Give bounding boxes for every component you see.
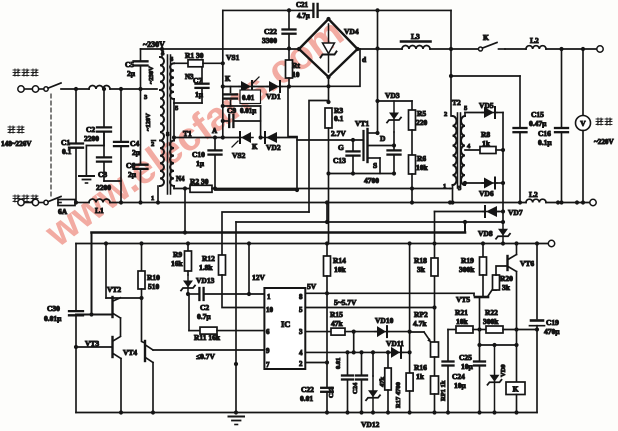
diode VD6 [479,178,497,199]
resistor R19 300k [459,241,487,295]
svg-text:1: 1 [267,293,271,301]
transistor VT6 [508,255,535,272]
wire mains rail [158,200,526,204]
MOSFET VT1 [355,119,394,174]
label 0.01 vertical [335,358,342,369]
svg-text:≤0.7V: ≤0.7V [196,352,215,361]
N3 bottom lead [172,99,202,140]
T1 secondary N3 [170,56,179,112]
svg-text:4.7k: 4.7k [413,319,427,328]
svg-text:1.8k: 1.8k [199,263,213,272]
svg-text:RP2: RP2 [414,310,428,319]
wire R10 to VT4 base [142,298,146,343]
svg-text:1: 1 [151,195,154,202]
node C1 top [74,87,78,91]
diode VD7 [483,206,523,217]
svg-text:R14: R14 [333,256,346,265]
label <=0.7V [196,352,215,361]
transistor VT3 [85,337,121,359]
wire T2 pin3 to VD6 [463,181,484,185]
diode VD10 [375,316,394,337]
svg-text:2: 2 [151,141,154,148]
svg-text:Rt: Rt [292,61,300,70]
wire rectifier column [501,113,505,225]
wire T1 row to VS2 [174,135,240,139]
wire column A [434,244,436,343]
label VD4 [344,27,359,36]
inductor L2 bottom [526,190,546,203]
switch S1b [39,197,61,205]
svg-text:10μ: 10μ [461,362,474,371]
wire R5 to R6 [411,130,413,155]
svg-text:T2: T2 [452,98,461,107]
label A node [212,127,217,135]
output terminal bottom [590,199,596,205]
resistor R8 1k [480,130,496,154]
C8 value box 0.01 [240,90,261,104]
wire R15 to VD10 [345,330,377,334]
label ground-line (Chinese) [13,195,38,202]
svg-text:S: S [373,161,377,170]
T1 primary winding upper [160,50,165,90]
svg-text:VD3: VD3 [385,91,400,100]
resistor R20 3k [493,274,514,292]
wire IC ground column [234,222,238,415]
svg-text:6A: 6A [58,207,68,216]
svg-text:9: 9 [266,347,270,355]
svg-text:8: 8 [299,293,303,301]
svg-text:R21: R21 [455,308,468,317]
wire R3 top tap to R12 riser [309,101,329,213]
wire top drop to T2 [449,10,453,116]
fuse 6A [58,200,75,217]
label 2.7V [331,129,346,138]
label T1 pin8 [166,129,192,138]
potentiometer RP2 4.7k [413,310,439,357]
node C4 top [119,87,123,91]
svg-text:L2: L2 [529,190,538,199]
capacitor C4 [114,89,141,205]
svg-text:10k: 10k [416,163,429,172]
svg-text:47k: 47k [331,319,344,328]
wire L2 to output terminal [546,47,596,51]
thyristor VS2 [232,132,253,160]
svg-text:C21: C21 [296,1,309,9]
input terminal circles top [18,86,39,92]
transistor VT5 [456,290,496,304]
transistor VT4 [123,341,153,363]
ground branch from C2/C3 [86,132,104,175]
node C9 top [221,104,225,108]
resistor 47k vertical [379,350,391,414]
T1 tap3 [144,94,148,101]
wire R14 column down [326,293,328,387]
svg-text:VS2: VS2 [232,151,246,160]
inductor L3 [401,32,431,49]
svg-text:C2: C2 [200,303,209,312]
output terminal top [597,46,603,52]
svg-text:VT6: VT6 [520,259,534,268]
zener VD3 [387,101,401,148]
node VS1 anode [221,84,225,88]
svg-text:IC: IC [281,319,290,329]
switch K [479,33,506,51]
transistor VT2 [107,285,121,318]
svg-text:10: 10 [292,70,300,79]
thyristor VS1 [223,77,259,92]
capacitor C24a [352,350,367,414]
wire C15 column [518,76,522,205]
capacitor C19 470u [530,241,561,412]
label VD3 [385,91,400,100]
relay K coil [506,345,525,415]
svg-text:5: 5 [299,306,303,314]
svg-text:C16: C16 [538,129,551,138]
svg-text:L3: L3 [411,32,420,41]
svg-text:VD8: VD8 [478,229,493,238]
svg-text:R9: R9 [173,250,182,259]
svg-text:VT2: VT2 [107,285,121,294]
resistor R14 10k [324,241,347,293]
svg-text:R1 30: R1 30 [185,51,204,60]
T1 primary winding middle [160,90,164,141]
input terminal circles bottom [18,199,39,205]
resistor R11 16k [189,327,264,342]
svg-text:R2 30: R2 30 [190,177,209,186]
wire VD7 column drop [432,212,436,246]
svg-text:4.7μ: 4.7μ [297,12,310,20]
wire Rt bus to bridge bottom [289,85,329,87]
wire VT2 base drop [89,233,93,317]
svg-text:10μ: 10μ [454,381,467,390]
resistor R15 47k [305,310,345,335]
svg-text:VD11: VD11 [386,339,404,348]
T2 secondary winding [458,105,468,192]
wire VT4 collector to IC pin9 [153,349,264,351]
ground symbol (IC) [229,417,245,425]
wire VD10 to col A [387,330,412,334]
svg-text:2μ: 2μ [128,170,137,179]
zener VD12 [361,350,380,429]
wire top bus horizontal [223,9,313,11]
wire VT6 emitter drop [514,272,518,348]
svg-text:R10: R10 [147,273,160,282]
svg-text:R19: R19 [461,256,474,265]
wire sense rail [76,243,548,245]
capacitor C24b [452,362,485,415]
wire VD7 row [435,211,486,213]
svg-text:L1: L1 [95,206,104,215]
svg-text:7: 7 [266,361,270,369]
wire 230V line to bridge [141,48,300,50]
svg-text:R12: R12 [202,254,215,263]
svg-text:K: K [483,33,489,42]
svg-text:0.1: 0.1 [62,147,72,156]
capacitor C1 [61,89,83,205]
svg-text:1μ: 1μ [196,159,205,168]
svg-text:R18: R18 [414,256,427,265]
inductor L2 top [526,36,546,49]
T1 secondary N4 [170,138,174,189]
wire C3 bottom to C4 column [104,180,121,182]
svg-text:0.01: 0.01 [242,94,255,102]
diode VD1 [266,81,282,101]
label VS1 [226,53,240,62]
label N4 [176,175,185,183]
svg-text:C3: C3 [98,170,107,179]
svg-text:3k: 3k [502,283,511,292]
wire R12 to IC pin10 [222,275,264,308]
label 5V [307,282,317,291]
svg-text:VD2: VD2 [266,143,281,152]
svg-text:2: 2 [444,111,447,118]
svg-text:C10: C10 [192,150,205,159]
svg-text:C4: C4 [130,139,139,148]
wire R2 to T2 pin1 [212,186,450,192]
svg-text:VT5: VT5 [456,295,470,304]
label R17 4700 [395,382,402,408]
svg-text:~230V: ~230V [148,66,155,84]
wire IC pin2 stub [305,360,329,364]
wire 12V drop [247,241,266,294]
capacitor C5 [125,49,148,89]
capacitor C9 [221,106,261,127]
wire R3 col to rail [328,174,330,244]
svg-text:1k: 1k [416,372,425,381]
label K (VS2) [252,143,258,151]
IC box [264,288,305,369]
T1 pin1 lead [151,186,160,205]
svg-text:C1: C1 [61,138,70,147]
wire K to L2 [505,48,526,50]
ground symbol (input filter) [79,176,94,183]
wire L3 to switch K [430,47,479,51]
svg-text:V: V [580,119,586,128]
svg-text:10: 10 [266,306,274,314]
svg-text:L2: L2 [530,36,539,45]
wire relay feed row [480,344,517,346]
wire VT3 emitter drop [119,359,123,415]
gate wire to VT1 [297,139,364,141]
resistor R18 3k [414,256,438,276]
diode VD2 [263,132,281,152]
svg-text:300k: 300k [483,317,499,326]
svg-text:0.1μ: 0.1μ [538,138,552,147]
capacitor C13 [333,138,360,176]
wire N4 riser [183,189,187,235]
svg-text:VD12: VD12 [361,420,380,429]
wire RP2 to RP1 [434,357,436,376]
wire VT1 drain column [375,10,379,135]
svg-text:C5: C5 [125,60,134,69]
svg-text:K: K [252,143,258,151]
svg-text:47k: 47k [379,377,386,388]
resistor R22 300k [483,308,503,333]
svg-text:C24: C24 [352,382,359,394]
label ~230V vertical [148,66,155,84]
svg-text:R16: R16 [414,363,427,372]
capacitor C25 [443,353,474,415]
switch S1a [39,83,61,91]
wire thick control bus [92,222,466,233]
resistor R16 1k [406,332,427,415]
capacitor C22 [262,10,296,50]
wire T2 pin4 to R8 [465,149,480,151]
svg-text:VD9: VD9 [500,364,507,377]
wire T2 pin5 to VD5 [465,113,484,117]
wire top bus from VS1 column [222,10,224,137]
wire wiper column [408,241,412,332]
svg-text:16k: 16k [171,259,184,268]
svg-text:1μ: 1μ [195,90,204,99]
wire VD1 to Rt column [280,84,291,88]
label K (VS1 cathode) [225,75,231,83]
wire source bus [326,171,394,175]
svg-text:0.01: 0.01 [300,394,313,403]
svg-text:VD6: VD6 [479,189,494,198]
svg-text:VS1: VS1 [226,53,240,62]
svg-text:1k: 1k [482,139,491,148]
svg-text:VT1: VT1 [355,119,369,128]
svg-text:3k: 3k [417,265,426,274]
svg-text:2μ: 2μ [127,69,136,78]
wire VD5 to column [495,112,503,114]
svg-text:C6: C6 [126,161,135,170]
potentiometer RP1 1k [431,376,448,415]
resistor R9 16k [171,241,192,275]
capacitor C16 [538,49,568,205]
wire R21 left drop [448,330,456,362]
svg-text:0.7μ: 0.7μ [197,312,211,321]
capacitor C30 [44,304,83,413]
svg-text:2.7V: 2.7V [331,129,346,138]
label N3 [185,73,194,81]
label G [338,143,344,152]
node C22 top [287,8,291,12]
svg-text:4: 4 [299,349,303,357]
svg-text:5V: 5V [307,282,317,291]
transformer T2 core [458,113,461,188]
wire R1 to VS1 column [203,61,225,65]
wire riser rail tap [325,200,329,224]
wire R8 to column [496,148,505,152]
wire VD2 output drop [215,138,297,191]
inductor L1a [89,86,157,90]
svg-text:VD10: VD10 [375,316,394,325]
svg-text:C22: C22 [301,385,314,394]
wire VT2 emitter to VT3 collector [120,318,122,336]
wire VD1 output drop [288,87,297,137]
wire N3 top to R1 [174,62,188,64]
node 12V line [247,292,251,296]
wire VT2 base [76,314,113,316]
svg-text:6: 6 [266,328,270,336]
wire C21 to right drop [318,8,451,12]
resistor R3 0.1 [325,106,344,174]
resistor R1 30 [185,51,204,67]
capacitor C2 [84,89,111,143]
svg-text:R17 4700: R17 4700 [395,382,402,408]
svg-text:12V: 12V [252,273,266,282]
label T2 [452,98,461,107]
svg-text:2μ: 2μ [132,148,141,157]
resistor R5 220 [409,101,428,130]
svg-text:RP1 1k: RP1 1k [440,380,447,401]
svg-text:R6: R6 [417,154,426,163]
wire IC pin8 5V bus [305,291,474,295]
label 输出 ~220V [594,118,615,146]
svg-text:C19: C19 [546,318,559,327]
svg-text:T1: T1 [183,129,192,138]
label d [362,55,367,64]
wire T2 node to C15 [451,75,520,77]
capacitor C8 [224,87,237,107]
svg-text:R11 16k: R11 16k [194,333,221,342]
wire VD6 to column [495,181,505,185]
wire R22 to C19 [503,327,539,331]
wire left rail upper [75,244,77,312]
svg-text:~120V: ~120V [145,113,152,131]
node C2 top [102,87,106,91]
wire C8 bottom row [223,105,261,107]
capacitor C23 [328,350,353,414]
svg-text:220: 220 [416,118,428,127]
T1 tap2 stub [151,141,156,149]
capacitor C22 [300,385,333,415]
capacitor C7 [193,63,209,103]
svg-text:C7: C7 [193,76,202,85]
diode VD5 [479,101,497,118]
svg-text:0.47μ: 0.47μ [529,119,547,128]
wire rail to bottom terminal [546,200,589,204]
wire bottom rail [76,412,537,414]
svg-text:C23: C23 [328,386,335,398]
svg-text:0.01μ: 0.01μ [240,107,256,115]
svg-text:C2: C2 [86,125,95,134]
wire C9 to VS2 row [259,106,263,140]
svg-text:470μ: 470μ [544,327,560,336]
svg-text:A: A [212,127,217,135]
transformer T1 core [168,55,171,194]
svg-text:G: G [338,143,344,152]
bridge inner diode [321,24,337,72]
svg-text:C30: C30 [47,304,60,313]
wire VD13 node to R11 [188,294,190,331]
zener VD13 [181,275,215,296]
svg-text:4700: 4700 [364,176,379,185]
svg-text:0.01: 0.01 [335,358,342,369]
svg-text:1: 1 [443,183,446,190]
svg-text:C25: C25 [459,353,472,362]
svg-text:VT4: VT4 [123,348,137,357]
wire VT3 base [74,345,113,349]
resistor R2 30 [190,177,212,192]
capacitor C14 [388,132,401,176]
svg-text:VD7: VD7 [508,208,523,217]
label ~230V tap [143,40,165,49]
T1 pin4 stub [160,47,164,57]
svg-text:3300: 3300 [262,36,277,45]
resistor Rt 10 [286,49,301,87]
resistor R12 1.8k [199,254,226,275]
RP2 wiper arrow [410,332,432,343]
capacitor C10 [192,138,222,189]
wire N4 bottom row [174,186,190,190]
svg-text:R15: R15 [330,310,343,319]
resistor R21 10k [455,308,473,333]
wire VD3/R5 top bus [377,100,412,102]
svg-text:C22: C22 [264,27,277,36]
